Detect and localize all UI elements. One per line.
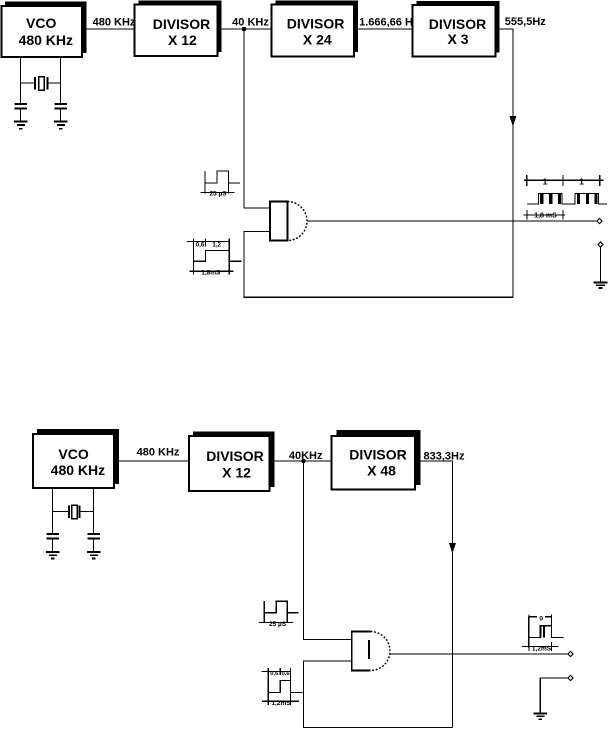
svg-text:1.666,66 H: 1.666,66 H <box>359 17 413 29</box>
capacitor C1 <box>14 104 27 122</box>
dimension D2 1,8 mS below W3 <box>524 210 566 220</box>
terminal T4 ground diamond <box>568 675 573 680</box>
crystal Y1 circuit: wire left leg <box>20 57 22 104</box>
AND gate U5 inner stroke <box>368 640 370 659</box>
block U2 (DIVISOR X 12) <box>135 5 218 57</box>
terminal T3 output diamond <box>568 651 573 656</box>
crystal Y1 <box>21 77 61 91</box>
wire VCO1 to U2 <box>82 28 135 30</box>
svg-text:40KHz: 40KHz <box>289 450 323 462</box>
wire U2 to U3 <box>218 28 272 30</box>
svg-text:480 KHz: 480 KHz <box>51 462 105 478</box>
wire VCO2 to U6 <box>114 460 189 462</box>
block U2 shadow <box>139 1 222 53</box>
svg-text:1,8 mS: 1,8 mS <box>534 213 557 220</box>
svg-text:VCO: VCO <box>26 15 56 31</box>
block U7 shadow <box>337 430 421 485</box>
waveform W2 (0,6 / 1,2 / 1,8mS) <box>187 239 241 275</box>
waveform W4 (25 uS square bottom) <box>259 601 298 623</box>
ground GND6 <box>534 714 548 720</box>
capacitor C2 <box>54 104 67 122</box>
arrow A2 down on 833Hz line <box>449 543 456 554</box>
terminal T1 output diamond <box>597 218 602 223</box>
ground GND3 <box>594 283 608 289</box>
svg-text:555,5Hz: 555,5Hz <box>505 16 546 28</box>
block U3 (DIVISOR X 24) <box>272 5 355 57</box>
svg-text:DIVISOR: DIVISOR <box>429 16 487 32</box>
block VCO1 shadow <box>5 2 87 54</box>
wire junction J2 down to gate U5 top input <box>304 461 353 640</box>
waveform W1 (25 uS square) <box>201 171 241 194</box>
svg-text:X 12: X 12 <box>222 465 251 481</box>
svg-text:DIVISOR: DIVISOR <box>153 16 211 32</box>
svg-text:1: 1 <box>579 176 584 186</box>
AND gate U1 dashed arc <box>288 202 308 241</box>
svg-text:DIVISOR: DIVISOR <box>206 448 264 464</box>
wire gate U5 output <box>390 653 571 655</box>
dimension D4 1,2mS below W6 <box>522 642 559 651</box>
node J1 junction dot <box>242 27 246 31</box>
svg-text:X 3: X 3 <box>447 31 468 47</box>
block VCO2 shadow <box>37 429 119 484</box>
terminal T2 ground diamond <box>598 242 603 247</box>
waveform W5 (0,6 / 0,6 / 1,2mS) <box>261 668 302 705</box>
dimension D3 above W6 <box>529 615 552 626</box>
svg-text:0,6: 0,6 <box>196 241 205 248</box>
svg-text:25 µS: 25 µS <box>209 191 227 198</box>
ground GND5 <box>87 552 101 558</box>
wire right leg <box>60 57 62 104</box>
svg-text:X 48: X 48 <box>367 463 396 479</box>
capacitor C4 <box>87 534 100 552</box>
ground GND4 <box>46 552 60 558</box>
block U3 shadow <box>276 1 359 53</box>
wire bottom rail to gate U5 bottom input <box>304 661 453 728</box>
svg-text:0: 0 <box>539 616 543 623</box>
block U6 (DIVISOR X 12) <box>189 436 270 491</box>
svg-text:DIVISOR: DIVISOR <box>287 16 345 32</box>
svg-text:0,6: 0,6 <box>270 671 279 677</box>
wire bottom rail from U4 output up to gate bottom input <box>244 232 513 298</box>
node J2 junction dot <box>301 459 305 463</box>
waveform W6 output pulse bottom <box>529 616 563 647</box>
block VCO2 (VCO 480 KHz) <box>33 434 114 488</box>
wire to ground GND6 <box>540 678 567 714</box>
svg-text:0,6: 0,6 <box>282 671 291 677</box>
svg-text:VCO: VCO <box>58 446 88 462</box>
svg-text:X 24: X 24 <box>303 32 332 48</box>
block U4 shadow <box>417 1 500 53</box>
wire U3 to U4 <box>354 28 413 30</box>
wire U6 to U7 <box>270 460 332 462</box>
svg-text:480 KHz: 480 KHz <box>137 447 180 459</box>
AND gate U1 body <box>270 202 288 241</box>
waveform W3 pulse bars <box>540 194 598 205</box>
wire junction J1 down to gate top input <box>244 29 270 208</box>
block VCO1 (VCO 480 KHz) <box>2 6 83 57</box>
crystal Y2 <box>53 505 94 519</box>
svg-text:480 KHz: 480 KHz <box>93 17 136 29</box>
svg-text:1,2: 1,2 <box>212 241 221 248</box>
block U6 shadow <box>193 432 275 488</box>
svg-text:25 µS: 25 µS <box>269 621 287 628</box>
ground GND2 <box>54 122 68 129</box>
svg-text:480 KHz: 480 KHz <box>19 32 73 48</box>
wire right leg <box>93 488 95 534</box>
svg-text:1,2mS: 1,2mS <box>532 645 552 652</box>
AND gate U5 dashed arc <box>371 632 391 671</box>
capacitor C3 <box>46 534 59 552</box>
wire gate U1 output <box>307 220 599 222</box>
svg-text:1,2mS: 1,2mS <box>271 700 291 707</box>
wire to ground GND3 <box>600 247 602 282</box>
dimension D1 above W3 <box>524 175 604 186</box>
svg-text:DIVISOR: DIVISOR <box>349 447 407 463</box>
arrow A1 down on 555Hz line <box>510 116 517 127</box>
svg-text:40 KHz: 40 KHz <box>232 17 269 29</box>
AND gate U5 body (open right) <box>352 632 371 671</box>
wire U7 output right and down to rail <box>415 461 453 728</box>
svg-text:X 12: X 12 <box>168 32 197 48</box>
block U4 (DIVISOR X 3) <box>413 5 496 57</box>
block U7 (DIVISOR X 48) <box>332 436 416 490</box>
svg-text:1,8mS: 1,8mS <box>201 270 221 277</box>
crystal Y2 circuit: wire left leg <box>52 488 54 534</box>
ground GND1 <box>14 122 28 129</box>
wire U4 output to corner <box>496 29 514 297</box>
waveform W3 output pulse bursts <box>527 194 607 205</box>
svg-text:1: 1 <box>543 176 548 186</box>
